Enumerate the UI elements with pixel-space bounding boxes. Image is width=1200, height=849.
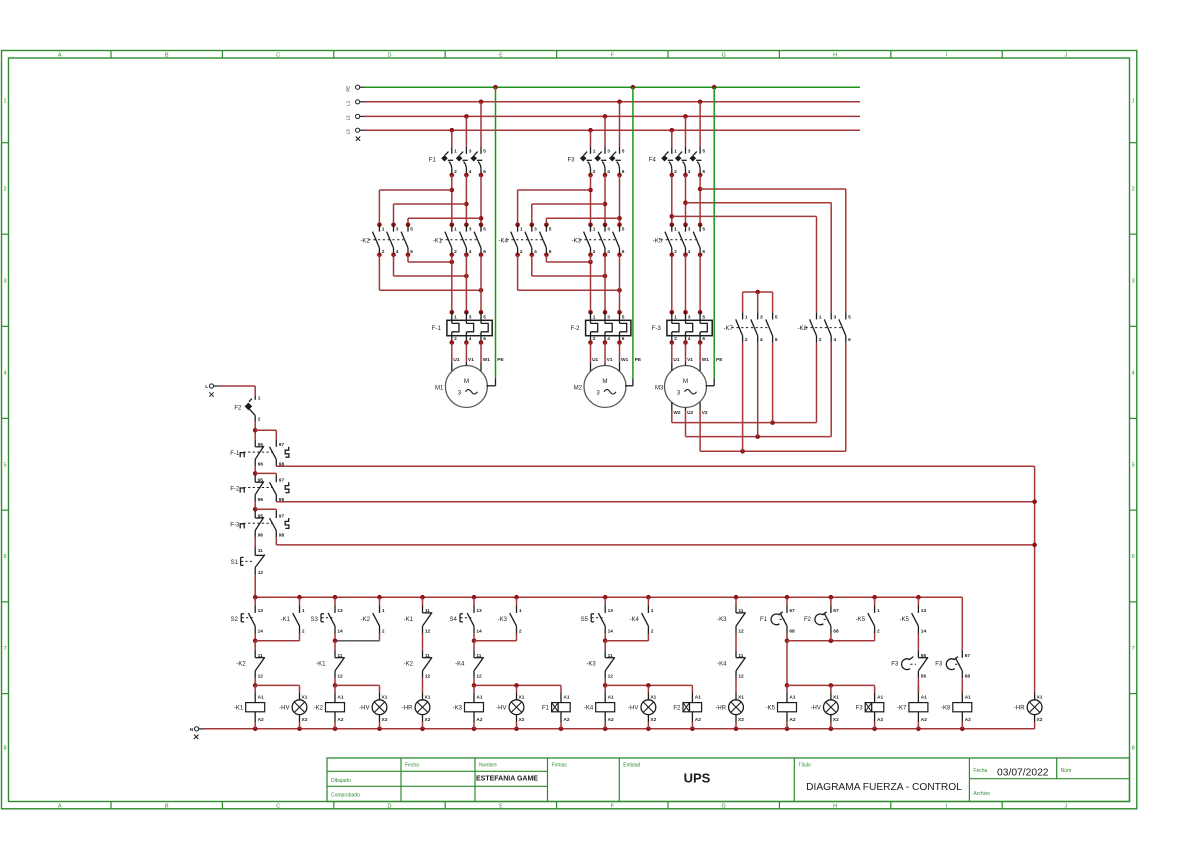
svg-text:-K4: -K4	[455, 662, 465, 668]
wire to coil K8	[961, 678, 963, 692]
svg-text:2: 2	[258, 417, 261, 423]
svg-text:Fecha: Fecha	[405, 763, 419, 769]
svg-text:68: 68	[833, 629, 839, 635]
svg-text:3: 3	[607, 314, 610, 320]
svg-text:11: 11	[738, 608, 743, 614]
svg-text:2: 2	[454, 169, 457, 175]
svg-text:C: C	[276, 53, 280, 59]
svg-text:A1: A1	[258, 694, 264, 700]
terminal mark X1	[209, 392, 213, 396]
svg-text:M1: M1	[435, 386, 444, 392]
svg-text:67: 67	[789, 608, 795, 614]
svg-text:Fecha: Fecha	[973, 768, 987, 774]
indicator lamp -HR	[1014, 693, 1043, 729]
contactor coil -K2	[314, 685, 345, 728]
svg-text:L2: L2	[346, 115, 351, 120]
svg-text:5: 5	[483, 149, 486, 155]
overload relay contacts F-1 (95-96 / 97-98)	[230, 440, 289, 468]
svg-text:6: 6	[483, 169, 486, 175]
wire breaker F1 to contactors	[452, 175, 481, 225]
power bus L3	[346, 128, 861, 134]
svg-text:03/07/2022: 03/07/2022	[997, 767, 1049, 778]
svg-text:1: 1	[674, 149, 677, 155]
svg-text:-K3: -K3	[717, 617, 727, 623]
aux contact NC -K1	[404, 606, 432, 635]
svg-text:F-3: F-3	[652, 326, 662, 332]
svg-text:-K5: -K5	[766, 706, 776, 712]
svg-text:M: M	[464, 378, 469, 385]
svg-text:S1: S1	[231, 560, 239, 566]
svg-text:L: L	[205, 384, 208, 390]
svg-text:6: 6	[622, 169, 625, 175]
timer contact NC F3	[891, 650, 928, 679]
svg-text:3: 3	[688, 227, 691, 233]
svg-text:67: 67	[833, 608, 839, 614]
svg-text:5: 5	[622, 149, 625, 155]
svg-text:F1: F1	[542, 706, 550, 712]
svg-text:56: 56	[921, 674, 927, 680]
svg-text:2: 2	[593, 249, 596, 255]
svg-text:97: 97	[279, 442, 285, 448]
svg-text:2: 2	[674, 336, 677, 342]
svg-text:4: 4	[688, 169, 691, 175]
svg-text:A1: A1	[789, 694, 795, 700]
thermal overload relay F-3	[652, 310, 712, 345]
svg-text:H: H	[833, 53, 837, 59]
svg-text:2: 2	[674, 169, 677, 175]
svg-text:4: 4	[396, 249, 399, 255]
svg-text:2: 2	[745, 337, 748, 343]
svg-text:S2: S2	[230, 617, 238, 623]
svg-text:X1: X1	[425, 694, 431, 700]
indicator lamp -HR	[715, 693, 744, 729]
svg-text:4: 4	[834, 337, 837, 343]
svg-text:-K2: -K2	[361, 617, 371, 623]
svg-text:V1: V1	[687, 357, 693, 363]
wire to F-1 97	[255, 430, 276, 440]
svg-text:2: 2	[593, 336, 596, 342]
svg-text:A2: A2	[695, 717, 701, 723]
wire between contacts	[735, 634, 737, 651]
contactor main contacts -K2 (3-pole NO)	[360, 223, 413, 258]
svg-text:F-2: F-2	[230, 487, 240, 493]
svg-text:68: 68	[965, 674, 971, 680]
motor M1 (3~)	[435, 357, 505, 407]
indicator lamp -HR	[402, 693, 431, 729]
svg-text:-HR: -HR	[1014, 706, 1025, 712]
svg-text:1: 1	[674, 227, 677, 233]
svg-text:96: 96	[258, 461, 264, 467]
star bridge wire over K7	[743, 290, 773, 313]
svg-text:X1: X1	[833, 694, 839, 700]
indicator lamp -HV	[811, 685, 840, 728]
svg-text:E: E	[499, 53, 503, 59]
svg-text:4: 4	[469, 336, 472, 342]
svg-text:-HV: -HV	[359, 706, 369, 712]
svg-text:11: 11	[425, 653, 430, 659]
wire terminal L to F2	[219, 386, 256, 396]
svg-text:4: 4	[607, 169, 610, 175]
wire to lamp	[422, 678, 424, 692]
svg-text:S4: S4	[449, 617, 457, 623]
wire top rail corner to F3 NO contact	[961, 597, 963, 650]
crossover wires K4 outputs to phases (branch 2)	[518, 255, 622, 293]
svg-text:12: 12	[337, 674, 343, 680]
svg-text:11: 11	[608, 653, 613, 659]
svg-text:X2: X2	[738, 717, 744, 723]
svg-text:M: M	[602, 378, 607, 385]
thermal overload relay F-1	[432, 310, 492, 345]
svg-text:6: 6	[622, 249, 625, 255]
wires to reversing contactor K2 (branch 1) with junctions	[379, 188, 483, 225]
contactor coil -K1	[234, 685, 265, 728]
svg-text:D: D	[388, 53, 392, 59]
overload relay contacts F-2 (95-96 / 97-98)	[230, 475, 289, 503]
svg-text:2: 2	[302, 629, 305, 635]
svg-text:A2: A2	[608, 717, 614, 723]
svg-text:PE: PE	[346, 86, 351, 92]
svg-text:1: 1	[674, 314, 677, 320]
svg-text:N: N	[190, 727, 194, 733]
svg-text:14: 14	[258, 629, 264, 635]
timer contact F3	[935, 650, 970, 679]
contactor main contacts -K5 (3-pole NO)	[653, 223, 706, 258]
svg-text:X1: X1	[302, 694, 308, 700]
pushbutton S4	[449, 606, 482, 635]
svg-text:13: 13	[258, 608, 264, 614]
svg-text:E: E	[499, 803, 503, 809]
svg-text:1: 1	[454, 149, 457, 155]
svg-text:1: 1	[877, 608, 880, 614]
overload relay contacts F-3 (95-96 / 97-98)	[230, 511, 289, 539]
svg-text:F-1: F-1	[432, 326, 442, 332]
svg-text:W1: W1	[702, 357, 710, 363]
svg-text:ESTEFANIA GAME: ESTEFANIA GAME	[476, 776, 538, 783]
svg-text:-K3: -K3	[498, 617, 508, 623]
svg-text:8: 8	[3, 746, 6, 752]
svg-text:A2: A2	[965, 717, 971, 723]
svg-text:X2: X2	[425, 717, 431, 723]
svg-text:-HV: -HV	[496, 706, 506, 712]
svg-text:F3: F3	[935, 662, 943, 668]
svg-text:-K3: -K3	[453, 706, 463, 712]
wires thermal relay to motor M2	[591, 343, 620, 363]
aux contact NO -K4	[630, 606, 654, 635]
svg-text:4: 4	[1132, 370, 1135, 376]
thermal overload relay F-2	[571, 310, 631, 345]
svg-text:6: 6	[1132, 554, 1135, 560]
svg-text:F4: F4	[649, 157, 657, 163]
terminal mark X2	[194, 735, 198, 739]
svg-text:4: 4	[688, 336, 691, 342]
wire breaker F3 to contactors	[591, 175, 620, 225]
svg-text:F-3: F-3	[230, 522, 240, 528]
svg-text:3: 3	[688, 149, 691, 155]
svg-text:-K4: -K4	[584, 706, 594, 712]
terminal mark X0	[356, 137, 360, 141]
circuit breaker F3 (3-pole)	[567, 147, 624, 177]
svg-text:A1: A1	[921, 694, 927, 700]
svg-text:A1: A1	[337, 694, 343, 700]
svg-text:X2: X2	[382, 717, 388, 723]
svg-text:F1: F1	[760, 617, 768, 623]
wire parallel join S4/K3	[472, 634, 517, 651]
PE wire to motor M1	[493, 85, 498, 386]
svg-text:-K7: -K7	[724, 326, 734, 332]
svg-text:Título: Título	[798, 763, 811, 769]
svg-text:PE: PE	[497, 357, 504, 363]
circuit breaker F4 (3-pole)	[649, 147, 706, 177]
svg-text:X2: X2	[650, 717, 656, 723]
svg-text:J: J	[1064, 53, 1067, 59]
svg-text:F3: F3	[567, 157, 575, 163]
svg-text:-K2: -K2	[236, 662, 246, 668]
contactor main contacts -K3 (3-pole NO)	[571, 223, 624, 258]
contactor main contacts -K8 (3-pole NO)	[797, 313, 851, 343]
svg-text:6: 6	[702, 249, 705, 255]
svg-text:1: 1	[382, 608, 385, 614]
svg-text:X1: X1	[1037, 694, 1043, 700]
wires thermal relay to motor M1	[452, 343, 481, 363]
svg-text:X2: X2	[1037, 717, 1043, 723]
svg-text:X1: X1	[650, 694, 656, 700]
svg-text:3: 3	[396, 227, 399, 233]
wire F-1 98 to fault lamp column	[276, 466, 1034, 692]
svg-text:A1: A1	[965, 694, 971, 700]
svg-text:Archivo: Archivo	[973, 791, 990, 797]
svg-text:2: 2	[520, 249, 523, 255]
svg-text:A2: A2	[563, 717, 569, 723]
svg-text:6: 6	[702, 336, 705, 342]
svg-text:6: 6	[622, 336, 625, 342]
svg-text:96: 96	[258, 533, 264, 539]
svg-text:2: 2	[3, 186, 6, 192]
svg-text:J: J	[1064, 803, 1067, 809]
svg-text:4: 4	[469, 169, 472, 175]
svg-text:2: 2	[1132, 186, 1135, 192]
PE wire to motor M3	[712, 85, 717, 386]
wire F-2 98 to fault lamp column	[276, 500, 1037, 505]
svg-text:3: 3	[469, 314, 472, 320]
svg-text:1: 1	[454, 227, 457, 233]
wire F-3 to S1	[254, 537, 256, 547]
svg-text:97: 97	[279, 478, 285, 484]
svg-text:95: 95	[258, 513, 264, 519]
power bus L1	[346, 100, 861, 106]
indicator lamp -HV	[359, 685, 388, 728]
svg-text:2: 2	[819, 337, 822, 343]
svg-text:A1: A1	[695, 694, 701, 700]
wire between contacts	[422, 634, 424, 651]
svg-text:12: 12	[476, 674, 482, 680]
svg-text:2: 2	[454, 249, 457, 255]
contactor coil -K3	[453, 685, 484, 728]
svg-text:12: 12	[425, 629, 431, 635]
svg-text:5: 5	[483, 227, 486, 233]
svg-text:H: H	[833, 803, 837, 809]
svg-text:-K5: -K5	[856, 617, 866, 623]
svg-text:F2: F2	[234, 405, 242, 411]
svg-text:3: 3	[469, 149, 472, 155]
svg-text:5: 5	[848, 314, 851, 320]
contactor main contacts -K4 (3-pole NO)	[499, 223, 552, 258]
svg-text:95: 95	[258, 442, 264, 448]
svg-text:7: 7	[3, 646, 6, 652]
wire between F-1 and F-2, junction	[253, 466, 276, 476]
svg-text:-K1: -K1	[404, 617, 414, 623]
svg-text:W1: W1	[621, 357, 629, 363]
svg-text:6: 6	[3, 554, 6, 560]
svg-text:G: G	[722, 53, 726, 59]
svg-text:1: 1	[382, 227, 385, 233]
svg-text:A2: A2	[258, 717, 264, 723]
svg-text:A2: A2	[921, 717, 927, 723]
svg-text:55: 55	[921, 653, 927, 659]
wire to coil K7	[917, 678, 919, 692]
svg-text:S5: S5	[581, 617, 589, 623]
wire F2 to overload contacts	[254, 422, 256, 440]
wire between F-2 and F-3, junction	[253, 502, 276, 512]
svg-text:G: G	[722, 803, 726, 809]
svg-text:F3: F3	[856, 706, 864, 712]
svg-text:4: 4	[469, 249, 472, 255]
svg-text:12: 12	[738, 674, 744, 680]
svg-text:12: 12	[608, 674, 614, 680]
timer coil F3	[856, 685, 884, 728]
svg-text:5: 5	[702, 227, 705, 233]
svg-text:F-2: F-2	[571, 326, 581, 332]
timer coil F1	[542, 685, 570, 728]
svg-text:2: 2	[877, 629, 880, 635]
svg-text:F3: F3	[891, 662, 899, 668]
svg-text:D: D	[388, 803, 392, 809]
svg-text:14: 14	[921, 629, 927, 635]
svg-text:-K1: -K1	[281, 617, 291, 623]
svg-text:-HV: -HV	[811, 706, 821, 712]
wires thermal relay to motor M3	[672, 343, 700, 363]
wire K5 aux to F3 contact	[917, 634, 919, 651]
wire parallel join S3/K2 (black)	[333, 634, 380, 651]
svg-text:-K4: -K4	[717, 662, 727, 668]
svg-text:A2: A2	[476, 717, 482, 723]
timer contact F2	[804, 606, 839, 635]
svg-text:95: 95	[258, 478, 264, 484]
svg-text:B: B	[165, 803, 169, 809]
svg-text:A: A	[58, 53, 62, 59]
svg-text:S3: S3	[310, 617, 318, 623]
svg-text:14: 14	[608, 629, 614, 635]
svg-text:U1: U1	[673, 357, 679, 363]
svg-text:3: 3	[607, 149, 610, 155]
svg-text:97: 97	[279, 513, 285, 519]
svg-text:UPS: UPS	[684, 770, 711, 785]
svg-text:1: 1	[593, 149, 596, 155]
svg-text:-K1: -K1	[433, 238, 443, 244]
contactor coil -K7	[897, 685, 928, 728]
aux contact NC -K3	[717, 606, 745, 635]
svg-text:1: 1	[454, 314, 457, 320]
svg-text:2: 2	[519, 629, 522, 635]
svg-text:6: 6	[848, 337, 851, 343]
wire to coil K2, junction, branch to lamp	[333, 678, 380, 687]
svg-text:Dibujado: Dibujado	[331, 778, 351, 784]
pushbutton S5	[581, 606, 614, 635]
svg-text:5: 5	[622, 227, 625, 233]
indicator lamp -HV	[628, 685, 657, 728]
wires K1 to thermal relay F-1	[452, 255, 481, 312]
wire breaker F4 to contactor K5	[672, 175, 700, 225]
svg-text:V1: V1	[607, 357, 613, 363]
svg-text:-HV: -HV	[279, 706, 289, 712]
svg-text:3: 3	[1132, 278, 1135, 284]
svg-text:12: 12	[738, 629, 744, 635]
svg-text:DIAGRAMA FUERZA - CONTROL: DIAGRAMA FUERZA - CONTROL	[806, 782, 962, 793]
svg-text:5: 5	[702, 314, 705, 320]
svg-text:11: 11	[476, 653, 481, 659]
svg-text:U1: U1	[453, 357, 459, 363]
svg-text:Nombre: Nombre	[479, 763, 497, 769]
pushbutton S3	[310, 606, 343, 635]
svg-text:6: 6	[702, 169, 705, 175]
wire parallel join F1/F2/K5	[785, 634, 875, 644]
contactor coil -K4	[584, 685, 615, 728]
svg-text:F2: F2	[804, 617, 812, 623]
svg-text:11: 11	[738, 653, 743, 659]
svg-text:-K5: -K5	[900, 617, 910, 623]
aux contact NO -K2	[361, 606, 385, 635]
svg-text:2: 2	[593, 169, 596, 175]
svg-text:4: 4	[688, 249, 691, 255]
svg-text:1: 1	[520, 227, 523, 233]
svg-text:A1: A1	[563, 694, 569, 700]
svg-text:5: 5	[1132, 462, 1135, 468]
wire to coil K1, junction, branch to lamp	[253, 678, 300, 687]
svg-text:6: 6	[549, 249, 552, 255]
control top rail	[253, 595, 962, 600]
svg-text:12: 12	[425, 674, 431, 680]
svg-text:3: 3	[3, 278, 6, 284]
svg-text:1: 1	[593, 314, 596, 320]
aux contact NC -K1	[316, 650, 344, 679]
svg-text:F-1: F-1	[230, 451, 240, 457]
indicator lamp -HV	[279, 685, 308, 728]
svg-text:X2: X2	[519, 717, 525, 723]
svg-text:A1: A1	[877, 694, 883, 700]
svg-text:5: 5	[3, 462, 6, 468]
svg-text:-K2: -K2	[404, 662, 414, 668]
svg-text:5: 5	[483, 314, 486, 320]
indicator lamp -HV	[496, 685, 525, 728]
svg-text:PE: PE	[716, 357, 723, 363]
control bottom rail	[204, 726, 1035, 731]
svg-text:-K3: -K3	[586, 662, 596, 668]
svg-text:3: 3	[834, 314, 837, 320]
svg-text:Entidad: Entidad	[623, 763, 640, 769]
svg-text:13: 13	[476, 608, 482, 614]
svg-text:3: 3	[534, 227, 537, 233]
svg-text:A1: A1	[608, 694, 614, 700]
aux contact NC -K3	[586, 650, 614, 679]
svg-text:11: 11	[258, 653, 263, 659]
svg-text:1: 1	[1132, 98, 1135, 104]
svg-text:2: 2	[651, 629, 654, 635]
svg-text:5: 5	[775, 314, 778, 320]
svg-text:14: 14	[476, 629, 482, 635]
svg-text:Firmas: Firmas	[552, 763, 568, 769]
control circuit breaker F2	[234, 396, 260, 423]
svg-text:14: 14	[337, 629, 343, 635]
svg-text:M: M	[683, 378, 688, 385]
